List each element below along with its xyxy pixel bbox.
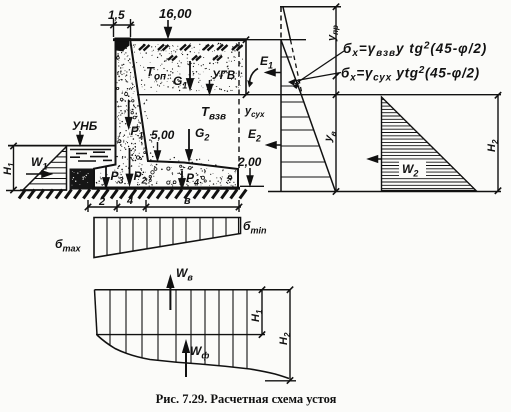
W1 arrow [26,171,51,177]
dimension 1,5 above stem [101,19,135,37]
y_sukh vertical reference line [245,39,247,96]
dashed vertical plane through footing heel [238,42,240,168]
bottom line of diagram [268,191,501,193]
force arrow E1 [266,69,281,75]
base ground line under footing [92,187,240,190]
H1 dimension inside uplift diagram [261,290,263,335]
svg-text:Рис. 7.29. Расчетная схема уст: Рис. 7.29. Расчетная схема устоя [156,392,337,406]
force arrow E2 [267,142,281,148]
wall-top level line [240,39,306,41]
svg-text:5,00: 5,00 [151,128,175,142]
diagram hatch [281,57,330,177]
sigma trapezoid [94,218,241,258]
ground surface line on top of backfill [113,38,246,41]
wall stem dark corner blob [116,41,130,51]
water surface dashes [70,150,112,162]
force arrow G1 [187,61,193,89]
uplift H1 level line [96,334,265,336]
pressure line below UGV (gamma_vzv) [301,94,336,192]
W_f seepage arrow [183,343,189,378]
wall stem concrete stipple [117,40,145,160]
submerged soil sparse stipple (T_vzv) [130,99,217,166]
W_v uplift arrow [168,278,174,311]
footing width dimension line [87,200,241,212]
formula 1 leader arrow [295,51,344,84]
force arrow P1 [126,100,132,127]
ground line under W1 triangle [20,189,67,191]
H2 dimension right of uplift diagram [289,290,291,381]
top line of diagram [280,6,341,8]
backfill soil stipple (T_op) [133,43,243,93]
force arrow P3 [103,166,109,187]
W2 triangle [382,97,477,191]
curved application arrow at E1 plane [250,69,259,84]
uplift left edge [95,290,98,335]
label W2 [399,160,426,176]
ground line right of footing [240,185,264,187]
svg-text:1,5: 1,5 [108,8,125,22]
UNB arrow [77,131,83,145]
surcharge arrow [165,20,171,37]
H2 dimension right [497,96,499,191]
svg-text:2: 2 [98,196,105,208]
2,00 arrow [247,168,253,185]
svg-text:УНБ: УНБ [72,119,98,133]
uplift bottom seepage curve [97,335,289,379]
W1 water pressure triangle [23,147,67,191]
svg-text:УГВ: УГВ [212,70,235,82]
ground hatch band [19,190,246,199]
uplift top edge [95,289,291,291]
svg-text:2,00: 2,00 [237,155,262,169]
pressure axis dashed upper part [280,7,282,39]
H1 dimension left [6,146,36,191]
pressure line without surcharge [281,40,301,94]
tailwater level line UNB [8,145,115,147]
svg-text:4: 4 [126,195,133,207]
force arrow G2 [186,129,192,160]
footing concrete stipple [96,163,237,187]
pressure line gamma_sukh with surcharge (solid above wall top) [283,7,291,40]
svg-text:в: в [184,195,191,207]
5,00 arrow [155,142,161,160]
uplift hatch [110,290,247,369]
formula 2 leader arrow [291,73,341,82]
UGV arrow [207,80,213,94]
groundwater level line UGV [137,94,501,96]
force arrow P2 [127,148,133,184]
force arrow P4 [179,171,185,188]
abutment wall outline [94,39,238,188]
ground surface hatch marks [139,45,243,61]
pressure line dashed continuation below wall top [291,40,303,94]
pressure axis solid [280,39,282,192]
W2 arrow [369,156,383,162]
right dimension line of pressure diagram [335,6,337,192]
svg-text:16,00: 16,00 [159,6,192,21]
riprap dark block in front of footing [70,169,94,190]
